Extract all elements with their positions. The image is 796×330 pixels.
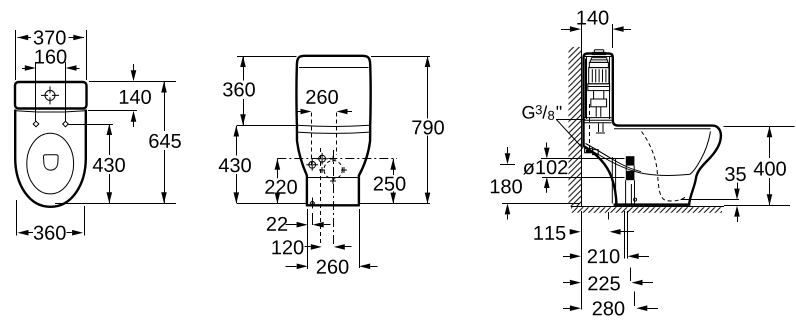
- plan view: dim 160 extension lines through cistern: [35, 62, 37, 121]
- front view: dim 220: [277, 159, 279, 179]
- plan view: dim 645: [164, 82, 166, 132]
- plan view: crosshair target on cistern: [45, 90, 55, 100]
- side view: G3/8 label: [522, 106, 534, 119]
- side view: tank lid seam: [584, 56, 612, 58]
- side view: cistern and bowl outline: [584, 54, 721, 205]
- front view: dim 430: [236, 126, 238, 156]
- front view: dim 22: [286, 224, 297, 226]
- plan view: extension line bowl bottom right: [55, 203, 176, 205]
- front view: cistern lid seam: [299, 67, 369, 69]
- side view: wall hatch: [569, 47, 582, 207]
- side view: G3/8 leader lines: [556, 119, 586, 121]
- side view: valve lower stems: [594, 91, 604, 99]
- side view: outlet pipe connecting lines: [626, 166, 634, 171]
- side view: dim 115: [570, 229, 581, 235]
- front view: dim 360: [243, 56, 245, 81]
- plan view: seat inner ring: [27, 133, 74, 194]
- plan view: dim 370 extension lines: [15, 30, 17, 80]
- side view: seat under line: [614, 128, 711, 130]
- plan view: dim 360 extension lines: [16, 200, 18, 236]
- side view: floor hatch: [571, 207, 722, 213]
- side view: outlet pipe lines to floor: [626, 180, 635, 205]
- plan view: dim 360: [28, 232, 33, 234]
- front view: pedestal right extension down: [359, 209, 361, 268]
- side view: tank bottom band: [584, 118, 611, 123]
- side view: fill valve cage with ribs: [589, 68, 609, 84]
- side view: floor extension left: [502, 203, 580, 205]
- plan view: line from right diamond: [69, 124, 114, 126]
- plan view: dim 160: [25, 65, 36, 71]
- side view: extension segment for 280: [634, 292, 636, 307]
- side view: flush button: [594, 50, 603, 53]
- front view: pedestal left extension down: [307, 209, 309, 269]
- front view: floor extension right: [360, 203, 431, 205]
- plan view: extension line lid edge right: [88, 110, 137, 112]
- front view: pedestal bottom edge: [306, 204, 360, 206]
- plan view: water area shape: [44, 155, 59, 170]
- side view: dim o102 extension lines: [541, 158, 625, 160]
- side view: dim 210: [563, 256, 570, 258]
- side view: flush valve box: [591, 99, 607, 107]
- side view: dim 180 reference tick: [500, 164, 515, 166]
- side view: fill valve flange stack: [589, 58, 608, 63]
- side view: outlet pipe lower block: [626, 171, 635, 180]
- side view: dim 35: [737, 183, 739, 189]
- front view: vertical centreline dash-dot: [333, 150, 335, 245]
- plan view: dim 140 arrows: [133, 64, 135, 75]
- side view: dim 180: [507, 147, 509, 153]
- side view: seat top extension right: [724, 126, 795, 128]
- side view: overflow pipe: [585, 59, 587, 118]
- side view: outlet pipe upper block: [626, 156, 635, 165]
- side view: dim 400: [769, 126, 771, 158]
- side view: float cup: [588, 84, 610, 91]
- front view: horizontal centreline dash-dot: [277, 158, 397, 160]
- side view: flush outlet under tank: [596, 123, 605, 133]
- side view: fill valve body: [589, 62, 608, 67]
- side view: inlet fitting: [585, 149, 593, 153]
- front view: crosshair target upper: [319, 155, 326, 162]
- plan view: bowl outer outline: [15, 110, 86, 207]
- side view: dim 225: [563, 282, 570, 284]
- side view: trap back wall lines: [612, 157, 615, 204]
- side view: wall extension line down: [581, 211, 583, 310]
- side view: outlet pipe extension pair: [624, 211, 626, 259]
- side view: dim o102 arrows: [546, 143, 548, 148]
- side view: foot bottom edge: [614, 203, 690, 205]
- side view: dim 140 extension lines: [581, 24, 583, 50]
- front view: hole centreline dashed left: [311, 113, 313, 169]
- side view: extension segment for 225: [630, 268, 632, 282]
- plan view: lid front edge: [16, 111, 85, 112]
- front view: dim 790: [427, 56, 429, 119]
- front view: short extension for dim 22: [312, 213, 314, 225]
- side view: dim 140: [561, 29, 570, 31]
- side view: floor line: [571, 206, 724, 208]
- front view: dashed line below pedestal: [320, 148, 322, 245]
- plan view: dim 370: [18, 37, 32, 39]
- front view: dim 260 top: [296, 111, 301, 113]
- side view: supply dashed line: [589, 104, 591, 148]
- front view: extension line cistern top right: [371, 56, 430, 58]
- side view: bowl inner rim line: [690, 132, 711, 175]
- side view: dim 280: [563, 308, 570, 310]
- side view: dim o102 text: [523, 163, 534, 174]
- plan view: dim 430: [109, 124, 111, 155]
- side view: tank inner walls: [586, 56, 588, 119]
- front view: dim 260 bottom: [286, 266, 297, 268]
- front view: cistern bottom edge: [297, 125, 370, 126]
- side view: bowl cavity bottom and channel line: [584, 147, 690, 176]
- front view: bowl left shoulder and pedestal: [297, 125, 307, 204]
- side view: dashed trap curve: [642, 132, 686, 202]
- front view: dim 250: [393, 159, 395, 175]
- side view: outlet level line for dim 35: [681, 199, 740, 201]
- front view: floor extension left: [237, 203, 306, 205]
- front view: bowl right shoulder and pedestal: [359, 125, 370, 204]
- front view: fixing hole diamond at floor: [310, 201, 314, 205]
- front view: hole centreline dashed right: [336, 113, 338, 156]
- side view: floor extension right: [724, 205, 790, 207]
- side view: tick for dim 115: [608, 212, 610, 220]
- side view: wall face line: [581, 47, 583, 207]
- front view: crosshair target lower: [309, 161, 316, 168]
- plan view: cistern outline: [15, 82, 87, 109]
- front view: cistern outline: [296, 56, 370, 126]
- side view: small circle marker: [634, 198, 637, 201]
- front view: outlet dashed circle: [324, 161, 342, 179]
- plan view: seat fixing hole diamonds: [33, 121, 39, 127]
- front view: pedestal top seam: [307, 177, 358, 179]
- front view: dim 120: [305, 246, 311, 248]
- front view: bowl lid seam: [297, 132, 370, 133]
- plan view: extension line cistern top right: [89, 81, 176, 83]
- front view: outlet plus marks: [319, 167, 325, 173]
- side view: channel upper parallel line: [586, 144, 642, 172]
- front view: extension line cistern top left: [237, 56, 297, 58]
- front view: extension line cistern bottom left: [237, 125, 297, 127]
